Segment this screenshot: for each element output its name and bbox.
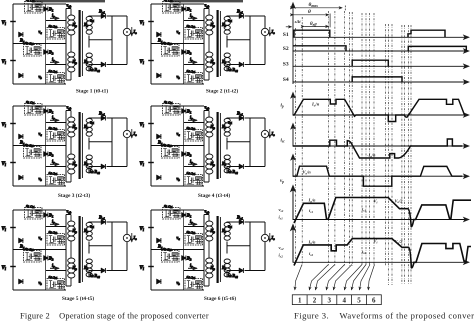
cropped content smear above stage 2 [171,0,243,2]
svg-text:isc: isc [281,139,286,144]
is1 trace [294,198,471,227]
svg-text:ip: ip [281,104,284,109]
svg-text:-Io/n: -Io/n [367,153,376,159]
svg-text:1: 1 [298,296,302,304]
svg-text:4: 4 [342,296,346,304]
ic trace [293,139,462,158]
svg-text:6: 6 [372,296,376,304]
stage 3 circuit [2,100,138,186]
svg-text:Stage 2 (t1-t2): Stage 2 (t1-t2) [206,88,239,95]
theta_max dimension arrow [293,6,345,12]
ip vertical axis [292,93,294,115]
svg-text:ts1: ts1 [362,207,366,213]
ip trace [293,99,465,121]
svg-text:S4: S4 [283,77,289,83]
ic vertical axis [292,124,294,146]
ip axis [293,114,469,116]
S3 trace [352,60,388,66]
svg-text:Io/n: Io/n [308,198,317,204]
svg-text:3: 3 [328,296,332,304]
svg-text:S3: S3 [283,61,289,67]
S4 trace [352,77,402,82]
svg-text:Stage 5 (t4-t5): Stage 5 (t4-t5) [62,295,95,302]
S3 axis [293,65,469,67]
is2 trace [294,239,471,268]
svg-text:θ: θ [308,9,311,15]
theta dimension arrow [293,14,330,28]
stage 4 circuit [140,100,276,186]
is2 vertical axis [292,225,294,262]
stage 1 circuit [2,0,138,84]
shared vertical axis for S waveforms [292,3,294,84]
time grid dashed lines [295,11,411,285]
stage 2 circuit [140,0,276,84]
vp axis [293,175,469,177]
svg-text:5: 5 [357,296,361,304]
stage 6 circuit [140,204,276,290]
svg-text:is2: is2 [309,251,313,257]
svg-text:Stage 6 (t5-t6): Stage 6 (t5-t6) [204,295,237,302]
svg-text:Io/n: Io/n [311,102,320,108]
cropped content smear above stage 1 [33,0,105,2]
S1 axis [293,36,469,38]
svg-text:Figure 3. Waveforms of the: Figure 3. Waveforms of the proposed conv… [294,311,474,321]
svg-text:S2: S2 [283,46,289,52]
ic axis [293,145,469,147]
svg-text:Vo/2: Vo/2 [395,198,404,204]
interval number boxes [292,295,381,305]
svg-text:Vi: Vi [374,199,378,205]
svg-text:Vo/2: Vo/2 [395,239,404,245]
is1 axis [293,219,469,221]
svg-text:Vo/n: Vo/n [303,170,312,176]
S2 axis [293,50,469,52]
svg-text:Vi: Vi [374,239,378,245]
svg-text:θeff: θeff [310,22,317,27]
interval pointer fan lines [295,265,375,291]
vp vertical axis [292,155,294,176]
svg-text:vp: vp [280,179,284,184]
S4 axis [293,81,469,83]
S2 trace [293,46,466,51]
svg-text:Stage 1 (t0-t1): Stage 1 (t0-t1) [76,88,109,95]
svg-text:Stage 3 (t2-t3): Stage 3 (t2-t3) [58,192,91,199]
svg-text:Io/n: Io/n [308,239,317,245]
svg-text:S1: S1 [283,32,289,38]
vp trace [293,166,462,186]
is1 vertical axis [292,186,294,220]
S1 trace [294,30,445,37]
stage 5 circuit [2,204,138,290]
svg-text:2: 2 [313,296,317,304]
svg-text:is1: is1 [309,208,313,214]
svg-text:sΔt: sΔt [294,19,302,24]
svg-text:Figure 2 Operation stage of: Figure 2 Operation stage of the proposed… [20,312,209,321]
svg-text:Stage 4 (t3-t4): Stage 4 (t3-t4) [198,192,231,199]
is2 axis [293,261,469,263]
svg-text:ts2: ts2 [362,249,366,255]
